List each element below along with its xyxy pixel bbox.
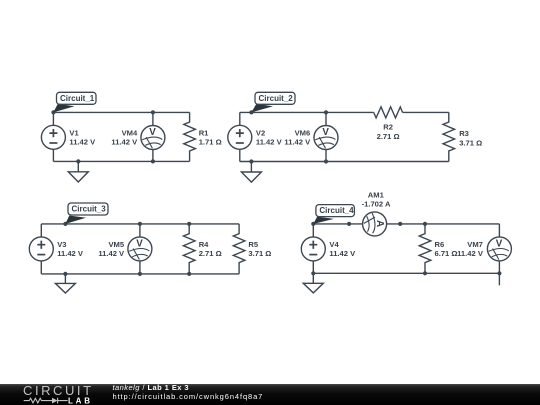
svg-text:V: V [136,238,143,249]
svg-text:11.42 V: 11.42 V [329,249,356,258]
resistor R2 [374,107,403,118]
junction ground Circuit_1 [76,159,80,163]
svg-text:11.42 V: 11.42 V [284,138,311,147]
junction ground Circuit_2 [249,159,253,163]
svg-text:2.71 Ω: 2.71 Ω [199,249,222,258]
svg-text:Circuit_3: Circuit_3 [72,205,107,214]
wire VM4 bottom lead [152,150,154,162]
voltmeter VM4 [141,126,165,150]
junction callout tip Circuit_1 [51,110,55,114]
wire V4 top lead [312,224,314,237]
resistor R3 [443,112,455,161]
wire top-right Circuit_4 [387,223,500,225]
svg-text:VM4: VM4 [122,128,138,137]
junction callout tip Circuit_3 [63,222,67,226]
svg-text:VM6: VM6 [295,128,311,137]
svg-text:3.71 Ω: 3.71 Ω [248,249,271,258]
wire V1 bottom lead [52,149,54,161]
svg-text:Circuit_2: Circuit_2 [259,94,294,103]
logo schematic line with resistor and diode, LAB text [0,384,100,405]
ground Circuit_1 [68,161,88,182]
svg-text:11.42 V: 11.42 V [256,138,283,147]
svg-text:V: V [322,127,329,138]
wire V1 top lead [52,112,54,125]
svg-text:V1: V1 [69,128,79,137]
wire V3 bottom lead [40,261,42,274]
wire VM4 top lead [152,112,154,125]
junction VM4 top [151,110,155,114]
wire top-left Circuit_2 [240,111,374,113]
wire bottom Circuit_1 [53,160,189,162]
junction VM6 bottom [324,159,328,163]
ground Circuit_2 [241,162,261,183]
svg-text:AM1: AM1 [368,191,385,200]
ground Circuit_4 [303,273,323,293]
wire bottom Circuit_3 [41,273,239,275]
node label Circuit_3 [65,203,108,224]
resistor R5 [233,224,245,274]
svg-text:11.42 V: 11.42 V [98,249,125,258]
voltage source V1 [41,125,65,149]
junction ground Circuit_4 [311,271,315,275]
resistor R4 [183,224,195,274]
voltmeter VM6 [314,126,338,150]
svg-text:2.71 Ω: 2.71 Ω [377,132,400,141]
junction R6 bottom [423,271,427,275]
junction R4 bottom [187,272,191,276]
svg-text:R6: R6 [435,240,445,249]
node label Circuit_2 [251,92,295,112]
svg-text:R4: R4 [199,240,209,249]
svg-text:-1.702 A: -1.702 A [362,200,391,209]
junction VM7 bottom [497,271,501,275]
wire VM7 top lead [498,224,500,237]
svg-text:R5: R5 [248,240,258,249]
junction AM1 left terminal [347,222,351,226]
svg-text:11.42 V: 11.42 V [457,249,484,258]
svg-text:R2: R2 [383,122,393,131]
ground Circuit_3 [55,274,75,293]
node label Circuit_1 [53,92,96,112]
svg-text:6.71 Ω: 6.71 Ω [435,249,458,258]
junction VM5 bottom [138,272,142,276]
svg-text:3.71 Ω: 3.71 Ω [459,138,482,147]
svg-text:11.42 V: 11.42 V [57,249,84,258]
wire top Circuit_1 [53,111,189,113]
svg-text:R1: R1 [199,128,209,137]
wire VM5 top lead [139,224,141,237]
svg-text:V: V [496,238,503,249]
svg-text:A: A [374,220,385,227]
voltage source V4 [301,237,325,261]
svg-text:1.71 Ω: 1.71 Ω [199,138,222,147]
CircuitLab logo wordmark [23,385,94,396]
wire V2 top lead [239,112,241,125]
svg-text:V2: V2 [256,128,265,137]
junction AM1 right terminal [398,222,402,226]
resistor R1 [184,112,196,161]
wire V2 bottom lead [239,149,241,161]
resistor R6 [419,224,431,273]
wire bottom Circuit_2 [240,161,449,163]
ammeter AM1 [363,212,387,236]
wire VM5 bottom lead [139,261,141,274]
svg-text:V3: V3 [57,240,66,249]
svg-text:V: V [149,127,156,138]
junction VM5 top [138,222,142,226]
wire VM6 bottom lead [325,150,327,162]
wire V3 top lead [40,224,42,237]
wire bottom Circuit_4 [313,272,499,274]
svg-text:V4: V4 [329,240,339,249]
svg-text:R3: R3 [459,129,469,138]
wire top Circuit_3 [41,223,239,225]
footer bar [0,384,540,405]
junction R6 top [423,222,427,226]
voltage source V3 [29,237,53,261]
wire top-left Circuit_4 [313,223,362,225]
node label Circuit_4 [313,205,354,224]
voltage source V2 [228,125,252,149]
svg-text:VM5: VM5 [108,240,124,249]
svg-text:11.42 V: 11.42 V [69,138,96,147]
svg-text:11.42 V: 11.42 V [111,138,138,147]
wire V4 bottom lead [312,261,314,273]
wire VM6 top lead [325,112,327,125]
junction ground Circuit_3 [63,272,67,276]
junction callout tip Circuit_2 [249,110,253,114]
svg-text:Circuit_1: Circuit_1 [60,94,95,103]
wire top-right Circuit_2 [403,111,449,113]
junction VM6 top [324,110,328,114]
svg-text:VM7: VM7 [467,240,483,249]
voltmeter VM7 [487,237,511,261]
svg-text:Circuit_4: Circuit_4 [319,206,354,215]
junction callout tip Circuit_4 [311,222,315,226]
voltmeter VM5 [128,237,152,261]
junction VM4 bottom [151,159,155,163]
wire stub below VM7 [498,273,500,285]
junction R4 top [187,222,191,226]
svg-text:LAB: LAB [68,396,93,405]
wire VM7 bottom lead [498,261,500,273]
